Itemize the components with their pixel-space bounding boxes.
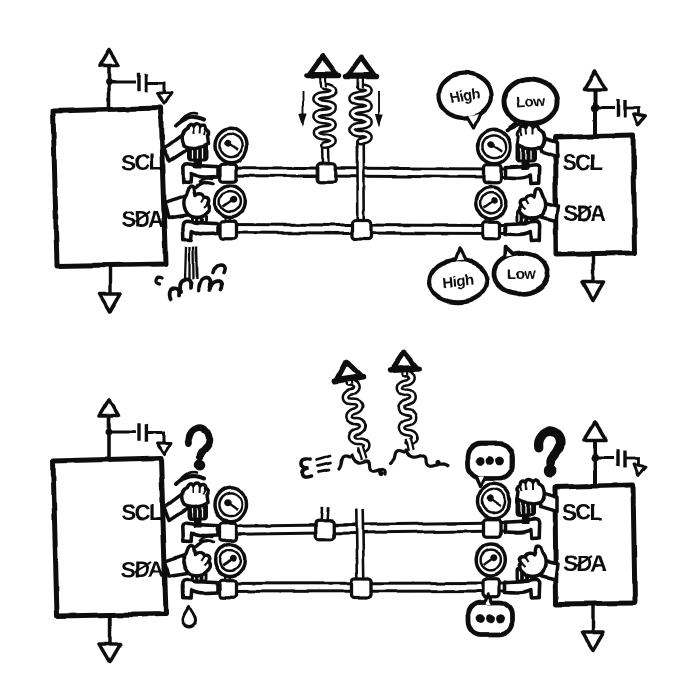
leftover R2 tube crossing SCL (resistor gone) (360, 509, 361, 578)
top right VCC junction dot (591, 104, 599, 112)
bottom right capacitor ground wire (626, 458, 639, 464)
pull-up resistor R1 neck (319, 75, 327, 88)
top left VCC power arrow (100, 50, 119, 66)
pull-up resistor R2 VCC arrow (348, 57, 374, 75)
bottom right block ground (591, 604, 594, 633)
top left capacitor ground wire (148, 83, 164, 92)
bottom left SCL valve knob (187, 500, 208, 521)
question mark left (confused master) (188, 428, 209, 457)
speech bubble Low (SDA said low) (494, 253, 548, 294)
top right SDA hand (open thumb-up) (519, 189, 545, 219)
top left SCL hand arm (164, 134, 192, 162)
water drop from SDA faucet (183, 607, 196, 627)
bottom right SDA hand (open thumb-up) (519, 546, 545, 576)
bottom right SCL hand (gripping) (517, 480, 544, 504)
top right MCU block (555, 135, 635, 254)
bottom SDA bus pipe (wire) (216, 582, 504, 594)
pull-up resistor R2 tap fitting on SDA (352, 220, 371, 239)
pull-up resistor R1 tap fitting on SCL (317, 164, 336, 183)
top left SDA hand arm (165, 195, 193, 218)
svg-text:SCL: SCL (562, 150, 603, 175)
svg-text:SDA: SDA (563, 201, 607, 226)
top left SCL hand (gripping) (182, 124, 209, 148)
bottom right decoupling capacitor wire (595, 457, 614, 460)
top right SDA faucet valve (505, 222, 540, 241)
dust puff cloud (301, 459, 311, 478)
pull-up resistor R2 coil (352, 87, 369, 141)
bottom right SDA pressure gauge (485, 573, 492, 581)
top left SDA hand motion arcs (196, 182, 213, 187)
bottom left block ground (108, 616, 111, 645)
top left SDA pressure gauge (224, 214, 231, 222)
bottom right MCU block (555, 485, 635, 604)
top left SCL valve stem (194, 160, 202, 169)
question mark right (confused slave) (539, 431, 561, 462)
pull-up resistor R1 tube to SCL node (321, 144, 330, 166)
top left SDA gauge fitting (220, 221, 237, 239)
top right block ground (591, 254, 594, 283)
svg-text:SCL: SCL (122, 500, 163, 525)
top right capacitor ground wire (626, 108, 639, 114)
top right SCL gauge fitting (484, 165, 501, 183)
water jet from open SDA faucet (185, 246, 186, 279)
top right SCL hand (gripping) (517, 125, 544, 149)
bottom left capacitor ground wire (148, 433, 164, 442)
top left SCL gauge fitting (220, 164, 237, 182)
bottom left SCL hand motion arc (176, 476, 204, 484)
top right SCL hand arm (539, 137, 557, 157)
top right SDA valve knob (516, 209, 533, 225)
bottom left SCL pressure gauge (225, 519, 232, 527)
svg-text:High: High (442, 272, 475, 292)
bottom left SDA faucet valve (183, 580, 218, 599)
bottom right VCC power arrow (584, 422, 606, 440)
bottom left VCC junction dot (106, 429, 113, 436)
top SCL bus pipe (wire) (216, 172, 504, 174)
bottom left SDA hand (fist thumb-up) (183, 546, 209, 576)
top left decoupling capacitor (137, 73, 140, 92)
bottom right SDA gauge fitting (483, 579, 500, 597)
top right decoupling capacitor (616, 100, 619, 117)
bottom left SDA gauge fitting (220, 580, 237, 598)
svg-text:SDA: SDA (121, 207, 165, 232)
top left capacitor ground arrow (158, 93, 172, 104)
top right SDA pressure gauge (485, 215, 492, 223)
bottom left SCL gauge fitting (220, 523, 237, 541)
running pull-up resistor R1 (escaping) (332, 359, 376, 461)
top right SCL valve stem (522, 161, 530, 170)
pull-up resistor R2 tube to SDA node (356, 140, 366, 220)
bottom left SCL hand (gripping) (182, 483, 209, 507)
speech bubble High (SDA said high) (429, 260, 487, 303)
bottom SCL bus pipe (wire) (216, 527, 504, 531)
leftover R1 stub tube on SCL (resistor gone) (324, 507, 325, 524)
top right capacitor ground arrow (632, 114, 646, 126)
top right SCL pressure gauge (488, 161, 495, 169)
bottom left SDA hand arm (165, 554, 193, 577)
bottom left MCU block (53, 458, 166, 616)
speech bubble High (SCL said high) (439, 73, 492, 118)
bottom left decoupling capacitor wire (109, 431, 136, 434)
bottom right SCL valve knob (516, 496, 537, 517)
top right SDA hand arm (540, 203, 558, 222)
top SDA bus pipe (wire) (216, 229, 504, 230)
top left SDA hand (fist thumb-up) (183, 187, 209, 217)
top left decoupling capacitor wire (109, 81, 136, 84)
top left SDA faucet valve (183, 221, 218, 240)
top left SCL hand motion arc (176, 117, 204, 125)
pull-up resistor R1 coil (316, 87, 333, 145)
top left SCL pressure gauge (225, 160, 232, 168)
svg-text:SCL: SCL (562, 500, 603, 525)
top right decoupling capacitor wire (595, 107, 614, 110)
current down-arrow right of R2 (378, 91, 380, 117)
top left VCC junction dot (106, 79, 113, 86)
top right SDA gauge fitting (483, 222, 500, 240)
bottom left SCL hand arm (164, 493, 192, 521)
bottom left SDA pressure gauge (224, 573, 231, 581)
current down-arrow left of R1 (302, 91, 304, 117)
speech bubble Low (SCL said low) (504, 79, 557, 124)
ellipsis bubble (SCL silent) (468, 444, 513, 479)
water splash marks (155, 277, 162, 284)
bottom right SCL hand arm (539, 491, 557, 511)
bottom right SDA faucet valve (505, 579, 540, 598)
bottom left SDA valve knob (191, 567, 208, 583)
bottom right capacitor ground arrow (632, 464, 646, 476)
top left SCL faucet valve (183, 164, 218, 183)
svg-text:Low: Low (516, 93, 547, 112)
bottom right SDA hand arm (540, 560, 558, 579)
bottom left SCL valve stem (194, 519, 202, 528)
bottom right SCL gauge fitting (484, 519, 501, 537)
top left MCU block (53, 108, 166, 266)
bottom right SCL pressure gauge (488, 515, 495, 523)
bottom left SDA hand motion arcs (196, 541, 213, 546)
svg-text:SDA: SDA (121, 557, 165, 582)
top right SCL valve knob (516, 142, 537, 163)
bottom right VCC junction dot (591, 454, 599, 462)
running pull-up resistor R2 (escaping) (390, 351, 424, 451)
top right VCC power arrow (584, 72, 606, 90)
top right SCL faucet valve (505, 165, 540, 184)
top left block ground (108, 266, 111, 295)
leftover R1 tap fitting on bottom SCL (315, 521, 334, 540)
bottom left SCL faucet valve (183, 523, 218, 542)
bottom right decoupling capacitor (616, 450, 619, 467)
svg-text:SCL: SCL (122, 150, 163, 175)
pull-up resistor R2 neck (357, 75, 364, 88)
bottom right SCL valve stem (522, 515, 530, 524)
bottom right SDA valve knob (516, 566, 533, 582)
bottom left decoupling capacitor (137, 423, 140, 442)
top left SDA valve knob (191, 208, 208, 224)
svg-text:SDA: SDA (563, 551, 607, 576)
ellipsis bubble (SDA silent) (468, 603, 512, 635)
leftover R2 tap fitting on bottom SDA (352, 579, 371, 598)
svg-text:Low: Low (507, 266, 536, 283)
pull-up resistor R1 VCC arrow (310, 56, 336, 74)
top left SCL valve knob (187, 141, 208, 162)
bottom left VCC power arrow (100, 400, 119, 416)
bottom left capacitor ground arrow (158, 443, 172, 454)
bottom right SCL faucet valve (505, 519, 540, 538)
